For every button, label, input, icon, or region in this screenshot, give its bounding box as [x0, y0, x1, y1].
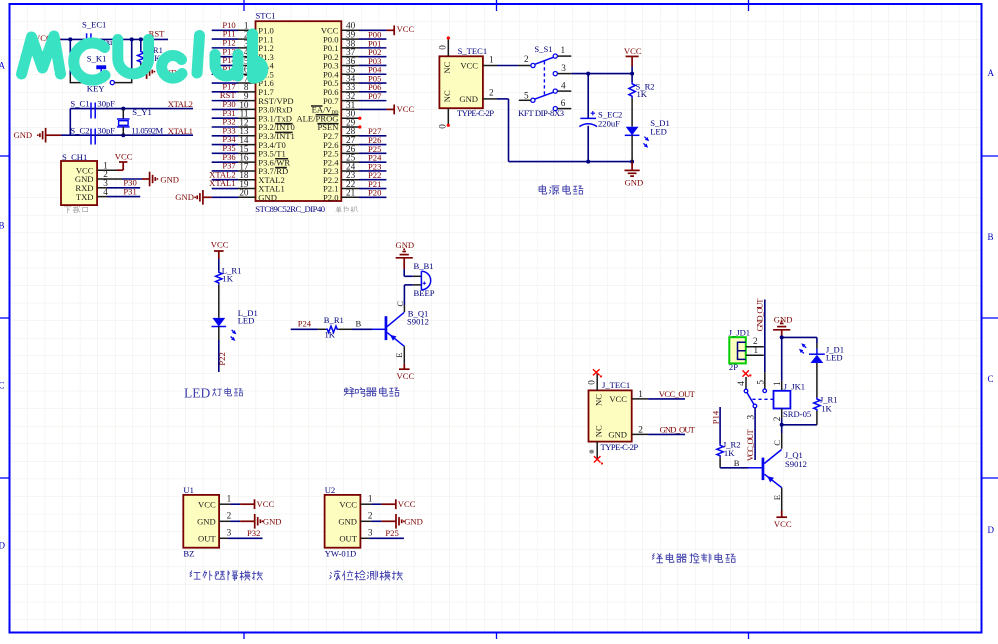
pin 1 wire + power VCC [97, 151, 133, 170]
LED S_D1 [625, 118, 670, 162]
power VCC (supply) [624, 46, 642, 74]
svg-text:J_TEC1: J_TEC1 [602, 380, 630, 390]
module U2 [325, 485, 361, 548]
label BZ [183, 549, 194, 559]
zone letters [0, 61, 995, 551]
svg-text:E: E [772, 495, 782, 500]
svg-text:3: 3 [227, 528, 232, 538]
svg-text:D: D [988, 525, 995, 535]
label 单片机 [336, 206, 358, 212]
svg-text:GND: GND [459, 94, 478, 104]
pin 2 wire + ground [360, 511, 422, 529]
pin 25 wire P24 [341, 153, 386, 163]
pin 3 wire P30 [97, 178, 140, 188]
svg-text:5: 5 [524, 91, 529, 101]
svg-text:B_B1: B_B1 [414, 261, 434, 271]
svg-text:BZ: BZ [183, 549, 194, 559]
svg-text:20: 20 [239, 188, 249, 198]
svg-text:GND: GND [14, 130, 33, 140]
no-connect pin 30 [358, 117, 361, 120]
svg-text:OUT: OUT [198, 534, 216, 544]
svg-text:OUT: OUT [339, 534, 357, 544]
svg-text:C: C [395, 301, 405, 307]
svg-text:LED: LED [650, 126, 667, 136]
wire emitter to VCC [403, 346, 405, 364]
wire gnd rail [509, 99, 633, 162]
svg-text:VCC: VCC [211, 240, 229, 250]
pin 30 wire [341, 109, 359, 119]
title 继电器控制电路 [652, 553, 735, 563]
crystal S_Y1 [117, 107, 164, 135]
switch pin 4 (X) [736, 370, 752, 392]
pin 8 wire P17 [212, 81, 256, 92]
svg-text:S_TEC1: S_TEC1 [458, 46, 488, 56]
svg-text:STC1: STC1 [256, 11, 276, 21]
node junction [780, 423, 784, 427]
pin 34 wire P05 [341, 73, 386, 83]
label KFT DIP-8X3 [518, 108, 564, 118]
wire gnd rail [69, 109, 71, 136]
resistor S_R2 [629, 74, 655, 127]
capacitor S_C2 [70, 125, 115, 144]
pin 11 wire P31 [212, 108, 256, 119]
power VCC (pin 31) [386, 104, 414, 115]
wire base net [291, 328, 318, 330]
label YW-01D [325, 549, 357, 559]
wire collector [772, 425, 782, 449]
svg-text:S9012: S9012 [407, 316, 429, 326]
svg-text:11.0592M: 11.0592M [131, 125, 163, 135]
svg-text:2: 2 [489, 88, 494, 98]
switch pin 5 [755, 372, 766, 392]
mechanical link dashed [752, 398, 773, 400]
LED J_D1 [799, 343, 844, 363]
buzzer B_B1 [413, 261, 435, 298]
pin 1 wire P10 [212, 20, 256, 31]
connector J_JD1 [729, 327, 751, 372]
svg-text:1: 1 [561, 45, 566, 55]
IC STC1 body [256, 11, 342, 203]
svg-text:0: 0 [437, 124, 447, 129]
resistor J_R1 [814, 363, 838, 425]
net label P14 [711, 410, 721, 424]
pin 15 wire P35 [212, 143, 256, 154]
wire base (relay) [720, 458, 763, 468]
pin 5 wire P14 [212, 55, 256, 66]
svg-text:XTAL2: XTAL2 [168, 99, 193, 109]
title 电源电路 [539, 185, 583, 195]
svg-text:2: 2 [638, 425, 643, 435]
svg-text:VCC_OUT: VCC_OUT [745, 429, 755, 462]
svg-text:VCC: VCC [397, 104, 415, 114]
title 液位检测模块 [330, 570, 403, 580]
svg-text:4: 4 [736, 381, 746, 386]
svg-text:1: 1 [754, 345, 759, 355]
switch pin 1 stub [558, 45, 572, 56]
wire to base [352, 319, 385, 330]
switch pin 3 wire [558, 63, 633, 74]
pin 19 wire XTAL1 [209, 178, 255, 189]
pin 21 wire P20 [341, 188, 386, 198]
power VCC (pin 40) [386, 24, 414, 35]
switch S_K1 KEY [70, 39, 131, 93]
wire junction row [782, 424, 817, 426]
svg-text:U2: U2 [325, 485, 336, 495]
node junction [780, 335, 784, 339]
svg-text:6: 6 [561, 98, 566, 108]
pin 3 wire P12 [212, 37, 256, 48]
label 下载口 [64, 206, 88, 213]
svg-text:B: B [356, 319, 362, 329]
wire LED branch [782, 337, 817, 354]
ground (supply) [625, 162, 644, 188]
svg-text:P2.0: P2.0 [323, 193, 339, 203]
resistor J_R2 [717, 407, 741, 468]
resistor B_R1 [318, 315, 352, 340]
svg-text:2: 2 [227, 511, 232, 521]
pin 40 wire [341, 21, 386, 31]
wire VCC_OUT vertical [745, 408, 755, 462]
svg-text:2P: 2P [729, 362, 738, 372]
wire GND_OUT vertical [755, 298, 765, 373]
svg-text:D: D [0, 541, 6, 551]
svg-text:VCC: VCC [624, 46, 642, 56]
relay pin 2 wire [772, 409, 782, 425]
relay J_JK1 [774, 381, 812, 419]
svg-text:SRD-05: SRD-05 [783, 409, 811, 419]
wire buzzer to collector [404, 285, 413, 305]
svg-text:B: B [734, 458, 740, 468]
svg-text:P32: P32 [247, 528, 260, 538]
svg-text:S9012: S9012 [785, 459, 807, 469]
pin 2 wire to rail [483, 88, 509, 99]
pin 1 wire VCC_OUT [632, 389, 696, 399]
svg-text:VCC: VCC [460, 61, 478, 71]
svg-text:C: C [772, 440, 782, 446]
svg-text:S_K1: S_K1 [87, 54, 107, 64]
svg-text:4: 4 [103, 187, 108, 197]
node junction [586, 72, 634, 164]
svg-text:1K: 1K [821, 403, 832, 413]
pin 0 top stub [437, 36, 450, 56]
capacitor S_EC2 [579, 74, 622, 162]
svg-text:2: 2 [772, 416, 782, 421]
transistor B_Q1 [385, 301, 429, 358]
svg-text:5: 5 [755, 380, 765, 385]
ground (reset) [141, 64, 177, 79]
ground (pin 20) [175, 190, 238, 205]
pin 12 wire P32 [212, 117, 256, 128]
pin 2 wire + ground [97, 169, 179, 186]
pin 14 wire P34 [212, 134, 256, 145]
power VCC (reset) [34, 33, 61, 44]
pin 1 wire [746, 345, 764, 355]
svg-text:XTAL1: XTAL1 [209, 178, 236, 188]
svg-text:BEEP: BEEP [414, 288, 435, 298]
svg-text:YW-01D: YW-01D [325, 549, 357, 559]
svg-text:P07: P07 [368, 91, 382, 101]
svg-text:GND_OUT: GND_OUT [660, 424, 696, 434]
pin 16 wire P36 [212, 152, 256, 163]
wire XTAL2 net [70, 108, 193, 110]
pin 2 wire + ground [219, 511, 281, 529]
connector S_CH1 [61, 152, 97, 205]
wire XTAL1 net [61, 134, 193, 136]
svg-text:TYPE-C-2P: TYPE-C-2P [457, 108, 494, 118]
svg-text:U1: U1 [183, 485, 194, 495]
svg-text:1K: 1K [325, 330, 336, 340]
pin 26 wire P25 [341, 144, 386, 154]
pin 4 wire P13 [212, 46, 256, 57]
pin 33 wire P06 [341, 82, 386, 92]
svg-text:3: 3 [561, 63, 566, 73]
node junction [68, 37, 72, 41]
title 蜂鸣器电路 [344, 387, 399, 397]
svg-text:S_C1: S_C1 [70, 99, 89, 109]
pin 2 wire P11 [212, 29, 256, 40]
svg-text:GND_OUT: GND_OUT [755, 298, 765, 332]
svg-text:LED: LED [184, 385, 210, 400]
svg-text:C: C [988, 374, 994, 384]
svg-text:J_JD1: J_JD1 [729, 327, 751, 337]
svg-text:30pF: 30pF [97, 99, 115, 109]
pin 1 wire to switch [483, 54, 531, 65]
svg-text:VCC: VCC [397, 24, 415, 34]
svg-text:TXD: TXD [76, 192, 94, 202]
transistor J_Q1 [762, 450, 807, 488]
pin 6 wire P15 [212, 64, 256, 75]
switch pin 6 stub [558, 98, 572, 109]
net label XTAL1 [168, 126, 193, 136]
svg-text:P22: P22 [217, 352, 227, 365]
svg-text:1: 1 [489, 54, 494, 64]
svg-text:S_C2: S_C2 [70, 125, 89, 135]
pin 3 wire P25 [360, 528, 404, 539]
svg-text:GND: GND [338, 517, 357, 527]
pin 2 wire [746, 336, 764, 347]
svg-text:A: A [988, 68, 995, 78]
capacitor S_EC1 [82, 19, 117, 47]
svg-text:NC: NC [442, 61, 452, 73]
svg-text:C: C [0, 381, 5, 391]
title LED灯电路 [184, 385, 243, 400]
node junction [121, 107, 125, 138]
pin 0 bottom stub [437, 108, 450, 129]
svg-text:B_R1: B_R1 [324, 315, 344, 325]
svg-text:220uF: 220uF [598, 118, 620, 128]
pin 9 wire RST [212, 90, 256, 101]
connector J_TEC1 [589, 380, 632, 442]
svg-text:2: 2 [524, 54, 529, 64]
pin 39 wire P00 [341, 29, 386, 39]
node junction [130, 37, 143, 41]
svg-text:GND: GND [404, 517, 423, 527]
svg-text:GND: GND [625, 177, 644, 187]
svg-text:1K: 1K [222, 273, 233, 283]
svg-text:VCC_OUT: VCC_OUT [659, 389, 696, 399]
svg-text:30pF: 30pF [97, 125, 115, 135]
svg-text:1: 1 [368, 494, 373, 504]
wire P22 [217, 327, 227, 373]
ground (buzzer) [396, 240, 415, 269]
svg-text:VCC: VCC [198, 499, 216, 509]
pin 3 wire P32 [219, 528, 262, 539]
svg-text:1: 1 [638, 389, 643, 399]
svg-text:NC: NC [442, 90, 452, 102]
power VCC (relay) [774, 511, 792, 530]
svg-text:VCC: VCC [115, 151, 133, 161]
pin 29 wire [341, 117, 359, 127]
svg-text:VCC: VCC [774, 519, 792, 529]
pin 1 wire + power VCC [219, 494, 274, 510]
net label P24 [298, 319, 312, 329]
pin 1 wire + power VCC [360, 494, 415, 510]
pin 35 wire P04 [341, 65, 386, 75]
svg-text:GND: GND [608, 430, 627, 440]
pin 0 top stub (X) [586, 369, 602, 390]
svg-text:S_S1: S_S1 [534, 44, 552, 54]
pin 28 wire P27 [341, 126, 386, 136]
connector S_TEC1 [439, 46, 487, 108]
LED L_D1 [212, 308, 258, 341]
svg-text:KFT DIP-8X3: KFT DIP-8X3 [518, 108, 564, 118]
wire gnd to relay pin1 [772, 337, 782, 390]
pin 0 bottom stub (X) [589, 442, 603, 465]
svg-text:GND: GND [258, 193, 277, 203]
svg-text:0: 0 [586, 380, 596, 385]
svg-text:STC89C52RC_DIP40: STC89C52RC_DIP40 [255, 204, 325, 214]
svg-text:E: E [394, 353, 404, 358]
part number [255, 204, 325, 214]
pin 24 wire P23 [341, 161, 386, 171]
pin 4 wire P31 [97, 186, 140, 196]
power VCC (led) [211, 240, 229, 259]
svg-text:0: 0 [437, 45, 447, 50]
wire emitter [772, 488, 782, 511]
svg-text:P25: P25 [385, 528, 398, 538]
label TYPE-C-2P [601, 442, 639, 452]
svg-text:B: B [988, 232, 994, 242]
svg-text:GND: GND [175, 192, 194, 202]
svg-text:S_Y1: S_Y1 [132, 107, 152, 117]
ground (crystal) [14, 128, 62, 143]
pin 22 wire P21 [341, 179, 386, 189]
svg-text:P14: P14 [711, 410, 721, 424]
pin 23 wire P22 [341, 170, 386, 180]
pin 10 wire P30 [212, 99, 256, 110]
net label RST [149, 28, 166, 38]
svg-text:21: 21 [346, 188, 356, 198]
title 红外避障模块 [190, 571, 262, 581]
svg-text:VCC: VCC [339, 499, 357, 509]
net label XTAL2 [168, 99, 193, 109]
capacitor S_C1 [70, 99, 115, 119]
resistor S_R1 [138, 39, 163, 71]
power VCC (buzzer) [397, 364, 415, 381]
svg-text:P31: P31 [123, 186, 136, 196]
ground (relay) [773, 315, 792, 338]
svg-text:4: 4 [561, 80, 566, 90]
svg-text:S_EC1: S_EC1 [82, 19, 106, 29]
svg-text:VCC: VCC [397, 371, 415, 381]
no-connect pin 29 [358, 125, 361, 128]
pin 7 wire P16 [212, 73, 256, 84]
svg-text:1K: 1K [637, 89, 648, 99]
pin 31 wire [341, 100, 386, 110]
svg-text:B: B [0, 221, 5, 231]
svg-text:GND: GND [160, 174, 179, 184]
pin 32 wire P07 [341, 91, 386, 101]
svg-text:J_JK1: J_JK1 [784, 381, 806, 391]
svg-text:VCC: VCC [398, 499, 416, 509]
svg-text:P24: P24 [298, 319, 312, 329]
pin 27 wire P26 [341, 135, 386, 145]
svg-text:TYPE-C-2P: TYPE-C-2P [601, 442, 639, 452]
switch pin 4 stub [558, 80, 572, 91]
relay switch arm [747, 393, 757, 408]
pin 37 wire P02 [341, 47, 386, 57]
label TYPE-C-2P [457, 108, 494, 118]
pin 2 wire GND_OUT [632, 424, 696, 434]
svg-text:NC: NC [594, 425, 604, 437]
resistor L_R1 [216, 259, 242, 318]
switch S_S1 [524, 44, 557, 111]
svg-text:NC: NC [594, 394, 604, 406]
pin 36 wire P03 [341, 56, 386, 66]
svg-text:VCC: VCC [609, 394, 627, 404]
pin 18 wire XTAL2 [209, 169, 255, 180]
watermark MCUclub [22, 34, 263, 80]
svg-text:1: 1 [772, 381, 782, 386]
svg-text:XTAL1: XTAL1 [168, 126, 193, 136]
svg-text:GND: GND [263, 517, 282, 527]
svg-text:P20: P20 [368, 188, 381, 198]
svg-text:LED: LED [826, 352, 843, 362]
pin 20 wire [238, 188, 256, 198]
pin 38 wire P01 [341, 38, 386, 48]
svg-text:3: 3 [368, 528, 373, 538]
svg-text:1: 1 [227, 494, 232, 504]
wire RST net [61, 38, 168, 40]
svg-text:1K: 1K [724, 448, 735, 458]
pin 17 wire P37 [212, 161, 256, 172]
pin 13 wire P33 [212, 125, 256, 136]
svg-text:2: 2 [368, 511, 373, 521]
svg-text:VCC: VCC [257, 499, 275, 509]
wire to buzzer [404, 269, 413, 276]
svg-text:A: A [0, 61, 6, 71]
svg-text:GND: GND [197, 517, 216, 527]
module U1 [183, 485, 219, 548]
svg-text:LED: LED [238, 315, 255, 325]
svg-text:3: 3 [746, 415, 756, 420]
switch pin 5 stub [519, 99, 531, 101]
